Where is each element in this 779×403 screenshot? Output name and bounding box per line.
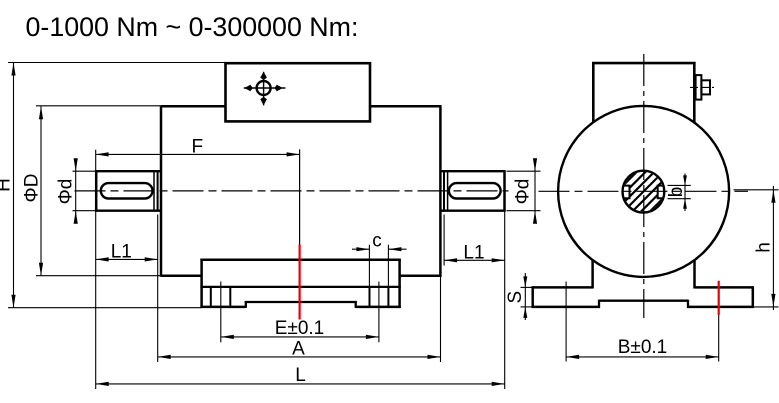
dimension S (flange thickness) (521, 286, 534, 288)
dimension Phid left (75, 163, 77, 220)
svg-text:b: b (666, 187, 687, 198)
dimension H (13, 63, 15, 308)
dimension F (96, 153, 300, 155)
dimension c (352, 248, 369, 250)
dimension E+-0.1 (221, 336, 379, 338)
red section line through base (left view) (299, 149, 301, 244)
svg-text:S: S (505, 291, 526, 304)
connector symbol in box (257, 81, 271, 95)
svg-text:Φd: Φd (56, 179, 77, 205)
legs of end view (591, 260, 594, 289)
keyway notches in shaft section (622, 186, 630, 199)
svg-text:A: A (292, 338, 305, 359)
dimension L1 left (96, 258, 158, 260)
left foot slot lines (210, 287, 212, 307)
bolt center line left (end view) (565, 282, 567, 362)
right shaft (441, 170, 506, 172)
svg-text:E±0.1: E±0.1 (275, 318, 325, 339)
svg-text:H: H (0, 178, 15, 192)
svg-text:B±0.1: B±0.1 (618, 337, 668, 358)
svg-text:ΦD: ΦD (22, 174, 43, 203)
svg-text:L: L (295, 365, 306, 386)
dimension L1 right (444, 259, 505, 261)
dimension b (keyway width) (668, 184, 691, 186)
dimension h (772, 186, 774, 310)
right shaft keyway (449, 183, 501, 198)
main body (front view housing) (161, 105, 226, 108)
dimension Phid right (534, 163, 536, 220)
svg-text:F: F (191, 136, 203, 157)
horizontal centerline of left view (75, 190, 509, 192)
left shaft (95, 170, 161, 172)
svg-text:0-1000 Nm ~ 0-300000 Nm:: 0-1000 Nm ~ 0-300000 Nm: (26, 12, 359, 42)
bolt center line right, red marked (718, 281, 720, 315)
right foot bottom (356, 306, 401, 309)
svg-text:Φd: Φd (513, 179, 534, 205)
base recess bottom (245, 301, 357, 303)
base plate of left view (200, 259, 203, 308)
dimension A (158, 356, 441, 358)
svg-text:L1: L1 (463, 242, 484, 263)
dimension L (96, 383, 505, 385)
left shaft keyway (101, 183, 153, 198)
svg-text:L1: L1 (111, 241, 132, 262)
left foot bottom (200, 306, 245, 309)
end view connector box (592, 62, 696, 65)
dimension PhiD (40, 106, 42, 275)
svg-text:c: c (372, 231, 382, 252)
right foot slot lines (369, 287, 371, 307)
housing circle (end view) (558, 106, 729, 277)
centerlines of end view (539, 190, 749, 192)
svg-text:h: h (754, 242, 775, 253)
connector box on top of body (226, 63, 371, 121)
connector plug on box (696, 75, 702, 100)
dimension B+-0.1 (566, 356, 719, 358)
base flange of end view (532, 286, 593, 289)
